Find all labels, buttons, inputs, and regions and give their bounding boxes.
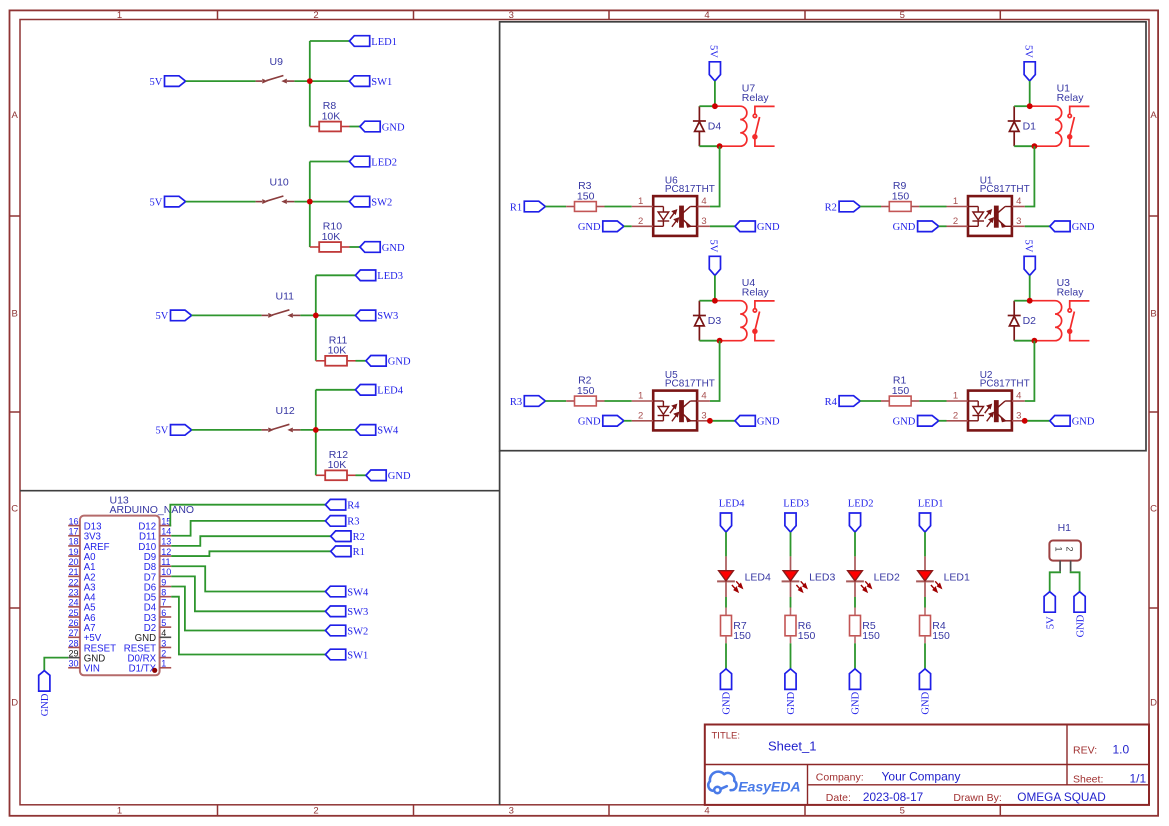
svg-text:SW2: SW2 <box>347 626 368 637</box>
svg-text:GND: GND <box>382 122 405 133</box>
wire resistor to opto pin1 <box>919 400 946 402</box>
svg-text:4: 4 <box>701 196 706 207</box>
svg-text:5V: 5V <box>708 240 719 253</box>
svg-text:22: 22 <box>68 577 78 587</box>
pin 7 D4 (right) <box>160 606 172 608</box>
wire switch to junction and SW flag <box>300 314 355 316</box>
ruler ticks right <box>1149 215 1158 217</box>
svg-text:GND: GND <box>578 222 601 233</box>
wire GND to opto pin2 <box>939 225 947 227</box>
svg-text:3: 3 <box>1016 410 1021 421</box>
port GND (nano) <box>39 671 50 692</box>
node relay top <box>1027 103 1033 109</box>
svg-text:2023-08-17: 2023-08-17 <box>863 790 923 804</box>
wire relay to opto pin4 <box>710 146 720 206</box>
pin 8 D5 (right) <box>160 596 172 598</box>
svg-text:C: C <box>1150 504 1157 515</box>
port 5V (U10 row) <box>165 196 186 207</box>
wire resistor to opto pin1 <box>605 206 632 208</box>
svg-text:2: 2 <box>313 10 318 21</box>
relay U3 coil <box>1030 301 1062 341</box>
opto internals: LED + phototransistor <box>968 206 1012 227</box>
port SW2 <box>349 196 369 207</box>
title block divider right of logo <box>807 765 809 806</box>
EasyEDA logo <box>708 772 736 794</box>
port GND (pin2) <box>603 416 624 427</box>
port GND (pin3) <box>1050 416 1070 427</box>
port SW2 (nano) <box>325 625 345 636</box>
pin 2 of H1 <box>1070 561 1072 572</box>
pin 21 A2 (left) <box>68 575 80 577</box>
port R2 (nano) <box>331 531 351 542</box>
wire resistor to GND <box>725 643 727 669</box>
svg-text:3: 3 <box>509 806 514 817</box>
svg-text:1: 1 <box>953 391 958 402</box>
svg-text:SW1: SW1 <box>371 77 392 88</box>
svg-text:TITLE:: TITLE: <box>712 731 741 742</box>
wire switch to junction and SW flag <box>294 80 349 82</box>
wire resistor to GND <box>350 246 360 248</box>
svg-text:GND: GND <box>757 222 780 233</box>
svg-text:13: 13 <box>161 537 171 547</box>
wire diode top to junction <box>699 105 715 107</box>
port GND (bottom) <box>849 669 860 690</box>
svg-text:29: 29 <box>68 648 78 658</box>
port SW3 (nano) <box>325 606 345 617</box>
relay U7 coil <box>715 106 747 146</box>
svg-text:11: 11 <box>161 557 170 567</box>
op-amp opto U2 PC817THT <box>968 391 1012 431</box>
svg-text:U11: U11 <box>276 290 295 302</box>
LED LED3 <box>782 556 800 597</box>
wire 5V to coil <box>1029 81 1031 106</box>
svg-text:26: 26 <box>68 618 78 628</box>
resistor R6 150 (vertical) <box>790 608 792 616</box>
title block outer <box>705 725 1149 805</box>
wire diode bottom to junction <box>1014 340 1034 342</box>
svg-text:GND: GND <box>1072 222 1095 233</box>
svg-text:10K: 10K <box>328 459 347 471</box>
wire SW3 net <box>171 576 325 611</box>
pin 1 of H1 <box>1059 561 1061 572</box>
wire resistor to GND <box>350 126 360 128</box>
wire resistor to opto pin1 <box>605 400 632 402</box>
pin 19 A0 (left) <box>68 555 80 557</box>
partition divider above arduino section <box>20 490 500 492</box>
port 5V (U1 relay) <box>1024 62 1035 81</box>
switch U10 <box>256 196 295 204</box>
svg-text:5V: 5V <box>149 197 162 208</box>
svg-text:LED2: LED2 <box>371 157 397 168</box>
svg-text:23: 23 <box>68 587 78 597</box>
pin 22 A3 (left) <box>68 586 80 588</box>
wire 5V to switch <box>192 429 262 431</box>
port 5V (U3 relay) <box>1024 256 1035 275</box>
wire diode bottom to junction <box>699 340 719 342</box>
title block divider below company row <box>808 784 1150 786</box>
node junction U11 <box>313 313 319 319</box>
svg-text:5: 5 <box>900 806 905 817</box>
svg-text:R4: R4 <box>825 397 838 408</box>
pin 15 D12 (right) <box>160 525 172 527</box>
svg-text:10K: 10K <box>322 231 341 243</box>
wire R1 net <box>171 551 331 556</box>
wire relay to opto pin4 <box>1025 146 1035 206</box>
wire port to resistor <box>545 206 566 208</box>
switch U9 <box>256 76 295 84</box>
svg-text:5V: 5V <box>1045 616 1056 629</box>
wire to LED flag <box>310 161 350 163</box>
op-amp opto U1 PC817THT <box>968 196 1012 236</box>
svg-text:OMEGA SQUAD: OMEGA SQUAD <box>1017 790 1106 804</box>
port GND (pin2) <box>603 221 624 232</box>
wire diode top to junction <box>699 300 715 302</box>
svg-text:12: 12 <box>161 547 171 557</box>
pin 11 D8 (right) <box>160 565 172 567</box>
svg-text:27: 27 <box>68 628 78 638</box>
svg-text:3: 3 <box>701 216 706 227</box>
svg-text:GND: GND <box>893 222 916 233</box>
svg-text:R1: R1 <box>510 202 522 213</box>
svg-text:SW3: SW3 <box>377 311 398 322</box>
wire H1 pin1 to 5V <box>1050 571 1060 591</box>
port GND (pin2) <box>918 221 939 232</box>
wire diode bottom to junction <box>699 145 719 147</box>
svg-text:24: 24 <box>68 598 78 608</box>
svg-text:SW2: SW2 <box>371 197 392 208</box>
wire diode bottom to junction <box>1014 145 1034 147</box>
node relay top <box>712 298 718 304</box>
svg-text:R3: R3 <box>510 397 522 408</box>
ruler ticks bottom <box>217 805 219 816</box>
svg-text:5V: 5V <box>1023 45 1034 58</box>
relay U4 contacts <box>753 301 775 341</box>
wire SW2 net <box>171 587 325 631</box>
port 5V (U12 row) <box>171 425 192 436</box>
svg-text:25: 25 <box>68 608 78 618</box>
node junction U10 <box>307 199 313 205</box>
op-amp opto U5 PC817THT <box>653 391 697 431</box>
pin 13 D10 (right) <box>160 545 172 547</box>
op-amp opto U6 PC817THT <box>653 196 697 236</box>
port R1 <box>524 201 545 212</box>
node junction U9 <box>307 78 313 84</box>
svg-text:Relay: Relay <box>742 287 770 299</box>
port SW3 <box>355 310 375 321</box>
port SW4 <box>355 425 375 436</box>
wire 5V to switch <box>192 314 262 316</box>
svg-text:LED4: LED4 <box>377 386 403 397</box>
port SW4 (nano) <box>325 586 345 597</box>
wire resistor to GND <box>356 360 366 362</box>
wire LED to resistor <box>924 597 926 608</box>
svg-text:18: 18 <box>68 537 78 547</box>
svg-text:GND: GND <box>722 691 733 714</box>
wire SW1 net <box>171 597 325 655</box>
relay U1 contacts <box>1068 106 1090 146</box>
svg-text:6: 6 <box>161 608 166 618</box>
port R4 <box>839 396 860 407</box>
port R3 (nano) <box>325 516 345 527</box>
pin 16 D13 (left) <box>68 525 80 527</box>
svg-text:1/1: 1/1 <box>1130 772 1147 786</box>
pin 24 A5 (left) <box>68 606 80 608</box>
svg-text:R1: R1 <box>353 547 365 558</box>
port GND (H1) <box>1074 592 1085 613</box>
wire switch to junction and SW flag <box>294 201 349 203</box>
opto internals: LED + phototransistor <box>653 401 697 422</box>
wire R4 net <box>170 505 325 526</box>
port R3 <box>524 396 545 407</box>
svg-text:SW4: SW4 <box>347 587 369 598</box>
port LED4 <box>355 385 375 396</box>
wire LED to resistor <box>725 597 727 608</box>
svg-text:GND: GND <box>757 417 780 428</box>
wire relay to opto pin4 <box>710 341 720 401</box>
switch U12 <box>262 424 301 432</box>
switch U11 <box>262 310 301 318</box>
wire LED to resistor <box>790 597 792 608</box>
port SW1 (nano) <box>325 649 345 660</box>
relay U1 coil <box>1030 106 1062 146</box>
pin 17 3V3 (left) <box>68 535 80 537</box>
port GND <box>366 470 386 481</box>
port R4 (nano) <box>325 499 345 510</box>
partition divider vertical center <box>499 451 501 805</box>
pin 1 D1/TX (right) <box>160 667 172 669</box>
port 5V (U4 relay) <box>709 256 720 275</box>
wire resistor to GND <box>790 643 792 669</box>
port GND (pin3) <box>1050 221 1070 232</box>
node pin3 <box>1022 418 1028 424</box>
svg-text:SW3: SW3 <box>347 607 368 618</box>
wire 5V to switch <box>186 201 256 203</box>
svg-text:5V: 5V <box>1023 240 1034 253</box>
pin 25 A6 (left) <box>68 616 80 618</box>
pin 29 GND (left) <box>68 657 80 659</box>
svg-text:9: 9 <box>161 577 166 587</box>
svg-text:D: D <box>1150 698 1157 709</box>
svg-text:4: 4 <box>1016 391 1021 402</box>
svg-text:R2: R2 <box>825 202 837 213</box>
LED LED2 <box>846 556 864 597</box>
svg-text:10K: 10K <box>322 110 341 122</box>
svg-text:2: 2 <box>638 410 643 421</box>
svg-text:Sheet:: Sheet: <box>1073 774 1103 786</box>
pin 14 D11 (right) <box>160 535 172 537</box>
resistor R4 150 (vertical) <box>924 608 926 616</box>
svg-text:GND: GND <box>851 691 862 714</box>
node relay top <box>1027 298 1033 304</box>
pin 5 D2 (right) <box>160 626 172 628</box>
wire opto pin3 to GND <box>1025 420 1050 422</box>
svg-text:5V: 5V <box>149 77 162 88</box>
svg-text:R2: R2 <box>353 532 365 543</box>
svg-text:4: 4 <box>701 391 706 402</box>
svg-text:5: 5 <box>900 10 905 21</box>
svg-text:150: 150 <box>892 190 910 202</box>
wire port to resistor <box>545 400 566 402</box>
pin 26 A7 (left) <box>68 626 80 628</box>
resistor R3 150 <box>566 206 574 208</box>
pin1 marker dot <box>152 668 157 673</box>
wire port to resistor <box>860 400 881 402</box>
node relay bottom <box>1032 143 1038 149</box>
svg-text:150: 150 <box>862 630 880 642</box>
wire to LED flag <box>316 274 356 276</box>
port R2 <box>839 201 860 212</box>
port GND (bottom) <box>785 669 796 690</box>
svg-text:8: 8 <box>161 587 166 597</box>
wire 5V to switch <box>186 80 256 82</box>
relay U3 contacts <box>1068 301 1090 341</box>
wire relay to opto pin4 <box>1025 341 1035 401</box>
svg-text:LED1: LED1 <box>371 37 397 48</box>
wire flag to LED <box>725 532 727 556</box>
svg-text:LED1: LED1 <box>918 498 944 509</box>
svg-text:PC817THT: PC817THT <box>980 378 1030 389</box>
wire to LED flag <box>310 40 350 42</box>
svg-text:14: 14 <box>161 527 171 537</box>
svg-text:A: A <box>1150 110 1157 121</box>
port 5V (H1) <box>1044 592 1055 613</box>
title block divider below title row <box>705 764 1149 766</box>
svg-text:VIN: VIN <box>84 664 100 675</box>
svg-text:2: 2 <box>638 216 643 227</box>
pin 23 A4 (left) <box>68 596 80 598</box>
svg-text:5V: 5V <box>155 426 168 437</box>
pin 18 AREF (left) <box>68 545 80 547</box>
wire port to resistor <box>860 206 881 208</box>
svg-text:3: 3 <box>1016 216 1021 227</box>
wire H1 pin2 to GND <box>1071 571 1080 591</box>
port GND <box>360 121 380 132</box>
pin 20 A1 (left) <box>68 565 80 567</box>
ruler ticks top <box>217 10 219 19</box>
svg-text:GND: GND <box>1075 614 1086 637</box>
resistor R8 10K <box>310 126 319 128</box>
svg-text:1.0: 1.0 <box>1113 743 1130 757</box>
wire SW4 net <box>171 566 325 591</box>
wire 5V to coil <box>1029 275 1031 300</box>
svg-text:28: 28 <box>68 638 78 648</box>
svg-text:10: 10 <box>161 567 171 577</box>
svg-text:5: 5 <box>161 618 166 628</box>
svg-text:GND: GND <box>382 243 405 254</box>
svg-text:Relay: Relay <box>742 92 770 104</box>
diode D3 <box>693 301 706 341</box>
svg-text:2: 2 <box>1065 547 1075 552</box>
wire GND to opto pin2 <box>939 420 947 422</box>
wire flag to LED <box>924 532 926 556</box>
svg-text:Company:: Company: <box>816 771 864 783</box>
port 5V (U9 row) <box>165 76 186 87</box>
port GND (pin3) <box>735 221 755 232</box>
svg-text:30: 30 <box>68 659 78 669</box>
pin 30 VIN (left) <box>68 667 80 669</box>
svg-text:150: 150 <box>892 385 910 397</box>
svg-text:U12: U12 <box>276 405 295 417</box>
resistor R2 150 <box>566 400 574 402</box>
svg-text:GND: GND <box>1072 417 1095 428</box>
svg-text:150: 150 <box>577 385 595 397</box>
wire GND to opto pin2 <box>624 420 632 422</box>
svg-text:REV:: REV: <box>1073 745 1097 757</box>
port 5V (U7 relay) <box>709 62 720 81</box>
resistor R7 150 (vertical) <box>725 608 727 616</box>
node pin3 <box>707 418 713 424</box>
svg-text:GND: GND <box>40 693 51 716</box>
pin 6 D3 (right) <box>160 616 172 618</box>
port LED1 <box>349 36 369 47</box>
wire junction vertical <box>315 390 317 476</box>
wire resistor to GND <box>356 474 366 476</box>
svg-text:4: 4 <box>1016 196 1021 207</box>
svg-text:LED3: LED3 <box>783 498 809 509</box>
svg-text:C: C <box>11 504 18 515</box>
svg-text:GND: GND <box>388 357 411 368</box>
LED LED1 <box>916 556 934 597</box>
resistor R12 10K <box>316 474 325 476</box>
svg-text:GND: GND <box>893 417 916 428</box>
svg-text:PC817THT: PC817THT <box>980 184 1030 195</box>
svg-text:4: 4 <box>704 806 709 817</box>
svg-text:LED2: LED2 <box>848 498 874 509</box>
pin 27 +5V (left) <box>68 636 80 638</box>
wire resistor to GND <box>854 643 856 669</box>
wire junction vertical <box>315 275 317 361</box>
wire GND to opto pin2 <box>624 225 632 227</box>
svg-text:19: 19 <box>68 547 78 557</box>
port GND (bottom) <box>720 669 731 690</box>
svg-text:Drawn By:: Drawn By: <box>953 792 1001 804</box>
resistor R1 150 <box>881 400 889 402</box>
wire opto pin3 to GND <box>710 420 735 422</box>
svg-text:Date:: Date: <box>826 792 851 804</box>
svg-text:LED4: LED4 <box>745 571 771 583</box>
svg-text:GND: GND <box>578 417 601 428</box>
pin 3 RESET (right) <box>160 646 172 648</box>
wire diode top to junction <box>1014 300 1029 302</box>
svg-text:A: A <box>12 110 19 121</box>
svg-text:LED4: LED4 <box>719 498 745 509</box>
svg-text:GND: GND <box>921 691 932 714</box>
svg-text:1: 1 <box>638 196 643 207</box>
wire to LED flag <box>316 389 356 391</box>
wire R3 net <box>171 521 325 536</box>
svg-text:2: 2 <box>161 648 166 658</box>
svg-text:10K: 10K <box>328 345 347 357</box>
resistor R9 150 <box>881 206 889 208</box>
pin 10 D7 (right) <box>160 575 172 577</box>
svg-text:1: 1 <box>117 806 122 817</box>
pin 4 GND (right) <box>160 636 172 638</box>
svg-text:SW4: SW4 <box>377 426 399 437</box>
node relay bottom <box>1032 338 1038 344</box>
svg-text:Relay: Relay <box>1057 287 1085 299</box>
svg-text:1: 1 <box>117 10 122 21</box>
svg-text:LED1: LED1 <box>944 571 970 583</box>
title block divider left of REV column <box>1066 725 1068 785</box>
svg-text:GND: GND <box>786 691 797 714</box>
opto internals: LED + phototransistor <box>653 206 697 227</box>
svg-text:150: 150 <box>577 190 595 202</box>
svg-text:21: 21 <box>68 567 78 577</box>
wire diode top to junction <box>1014 105 1029 107</box>
svg-text:2: 2 <box>953 410 958 421</box>
svg-text:4: 4 <box>161 628 166 638</box>
node relay bottom <box>717 338 723 344</box>
